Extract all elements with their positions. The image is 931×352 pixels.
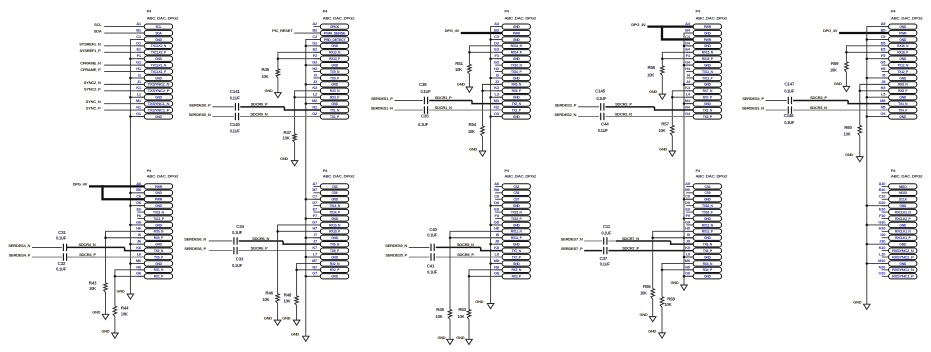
svg-text:0.1UF: 0.1UF — [596, 96, 607, 101]
svg-text:TX6_P: TX6_P — [330, 249, 340, 253]
svg-text:MISO: MISO — [899, 185, 907, 189]
svg-text:10K: 10K — [665, 302, 672, 307]
svg-text:RX11_P: RX11_P — [511, 236, 523, 240]
svg-text:10K: 10K — [640, 291, 647, 296]
svg-text:GND: GND — [280, 156, 288, 161]
svg-text:SDCR6_P: SDCR6_P — [251, 245, 268, 250]
svg-text:RX13_P: RX13_P — [329, 57, 341, 61]
svg-text:SERDES6_N: SERDES6_N — [184, 236, 206, 241]
svg-text:GND: GND — [513, 223, 521, 227]
svg-text:C37: C37 — [600, 256, 608, 261]
svg-text:ABC_DAC_DPG2: ABC_DAC_DPG2 — [891, 17, 923, 21]
svg-text:PWR: PWR — [704, 38, 712, 42]
svg-text:RX7_N: RX7_N — [703, 89, 713, 93]
svg-text:SDCR3_P: SDCR3_P — [810, 95, 827, 100]
svg-text:GND: GND — [704, 63, 712, 67]
svg-text:TX3_P: TX3_P — [703, 115, 713, 119]
svg-text:TX15_N: TX15_N — [511, 210, 523, 214]
svg-text:GND: GND — [469, 146, 477, 151]
svg-text:GND: GND — [513, 262, 521, 266]
svg-text:RX1_N: RX1_N — [154, 268, 164, 272]
svg-text:CFRAME_N: CFRAME_N — [80, 61, 101, 66]
svg-text:GND: GND — [291, 331, 299, 336]
svg-text:RX7_P: RX7_P — [703, 96, 713, 100]
svg-text:TX13_N: TX13_N — [153, 210, 165, 214]
svg-text:RX6_P: RX6_P — [512, 89, 522, 93]
svg-text:RXSYNC1_N: RXSYNC1_N — [892, 268, 914, 272]
svg-text:R54: R54 — [468, 122, 476, 127]
svg-text:GND: GND — [331, 102, 339, 106]
svg-text:TX10_P: TX10_P — [511, 70, 523, 74]
svg-text:GND: GND — [649, 89, 657, 94]
svg-text:10K: 10K — [468, 129, 475, 134]
svg-text:SDCR2_N: SDCR2_N — [615, 111, 632, 116]
svg-text:GND: GND — [640, 312, 648, 317]
svg-text:GND: GND — [704, 83, 712, 87]
svg-text:GND: GND — [331, 83, 339, 87]
svg-text:CS6: CS6 — [332, 191, 338, 195]
svg-text:RXSYNC1_P: RXSYNC1_P — [892, 275, 915, 279]
svg-text:GND: GND — [155, 96, 163, 100]
svg-text:SERDES6_P: SERDES6_P — [184, 246, 206, 251]
svg-text:C35: C35 — [421, 114, 429, 119]
svg-text:SCL: SCL — [94, 22, 102, 27]
svg-text:TX9_P: TX9_P — [154, 255, 164, 259]
svg-text:TX9_N: TX9_N — [154, 249, 164, 253]
svg-text:10K: 10K — [261, 74, 268, 79]
svg-text:GND: GND — [648, 328, 656, 333]
svg-text:G10: G10 — [878, 219, 886, 224]
svg-text:SYNC2_N: SYNC2_N — [84, 80, 101, 85]
svg-text:CS9: CS9 — [704, 191, 710, 195]
svg-text:RX8_P: RX8_P — [898, 89, 908, 93]
svg-text:RX12_P: RX12_P — [702, 230, 714, 234]
svg-text:C147: C147 — [784, 82, 795, 87]
svg-text:C140: C140 — [230, 122, 241, 127]
svg-text:A10: A10 — [879, 181, 887, 186]
svg-text:0.1UF: 0.1UF — [600, 262, 611, 267]
svg-text:RX3_N: RX3_N — [511, 268, 521, 272]
svg-text:GND: GND — [899, 25, 907, 29]
svg-text:RXCLK2_P: RXCLK2_P — [895, 217, 911, 221]
svg-text:10K: 10K — [436, 314, 443, 319]
svg-text:CS2: CS2 — [513, 185, 519, 189]
svg-text:RXCLK2_N: RXCLK2_N — [895, 210, 911, 214]
svg-text:SYSREF1_N: SYSREF1_N — [79, 41, 101, 46]
svg-text:F10: F10 — [879, 213, 886, 218]
svg-text:ABC_DAC_DPG2: ABC_DAC_DPG2 — [147, 17, 179, 21]
svg-text:SYNC2_P: SYNC2_P — [84, 86, 101, 91]
svg-text:RXSYNC2_P: RXSYNC2_P — [892, 255, 915, 259]
svg-text:RX12_N: RX12_N — [702, 223, 714, 227]
svg-text:SYSREF1_P: SYSREF1_P — [79, 48, 101, 53]
svg-text:GND: GND — [704, 255, 712, 259]
svg-text:GND: GND — [155, 191, 163, 195]
svg-text:RX16_N: RX16_N — [897, 44, 909, 48]
svg-text:RX15_N: RX15_N — [702, 51, 714, 55]
svg-text:0.1UF: 0.1UF — [232, 263, 243, 268]
svg-text:PRD_DETECT: PRD_DETECT — [324, 38, 346, 42]
svg-text:SERDES4_P: SERDES4_P — [9, 252, 31, 257]
svg-text:GND: GND — [331, 255, 339, 259]
svg-text:SERDES4_N: SERDES4_N — [8, 243, 30, 248]
svg-text:GND: GND — [899, 262, 907, 266]
svg-text:DPG_4V: DPG_4V — [823, 28, 838, 33]
svg-text:TX13_P: TX13_P — [153, 217, 165, 221]
svg-text:GND: GND — [155, 115, 163, 119]
svg-text:ABC_DAC_DPG2: ABC_DAC_DPG2 — [504, 17, 536, 21]
svg-text:SERDES0_P: SERDES0_P — [189, 102, 211, 107]
svg-text:GND: GND — [456, 335, 464, 340]
svg-text:PWR: PWR — [513, 31, 521, 35]
svg-text:GND: GND — [331, 198, 339, 202]
svg-text:TX16_P: TX16_P — [702, 210, 714, 214]
svg-text:GND: GND — [155, 204, 163, 208]
svg-text:0.1UF: 0.1UF — [784, 120, 795, 125]
svg-text:RX4_N: RX4_N — [703, 262, 713, 266]
svg-text:GND: GND — [155, 76, 163, 80]
svg-text:RX4_P: RX4_P — [703, 268, 713, 272]
svg-text:R60: R60 — [844, 125, 852, 130]
svg-text:GND: GND — [513, 243, 521, 247]
svg-text:R47: R47 — [283, 130, 291, 135]
svg-text:GND: GND — [671, 280, 679, 285]
svg-text:GND: GND — [457, 82, 465, 87]
svg-text:10K: 10K — [830, 67, 837, 72]
svg-text:10K: 10K — [283, 136, 290, 141]
svg-text:GND: GND — [101, 328, 109, 333]
svg-text:0.1UF: 0.1UF — [601, 231, 612, 236]
svg-text:D10: D10 — [879, 200, 887, 205]
svg-text:GND: GND — [845, 152, 853, 157]
svg-text:GND: GND — [155, 243, 163, 247]
svg-text:SERDES7_N: SERDES7_N — [561, 236, 583, 241]
svg-text:TX14_N: TX14_N — [329, 204, 341, 208]
svg-text:GND: GND — [853, 300, 861, 305]
svg-text:GND: GND — [899, 76, 907, 80]
svg-text:DPG_4V: DPG_4V — [73, 182, 88, 187]
svg-text:SDCR0_N: SDCR0_N — [250, 111, 267, 116]
svg-text:SCLK: SCLK — [899, 198, 908, 202]
svg-text:C11: C11 — [603, 224, 611, 229]
svg-text:ABC_DAC_DPG2: ABC_DAC_DPG2 — [323, 174, 355, 178]
svg-text:CS4: CS4 — [704, 185, 710, 189]
svg-text:RX3_P: RX3_P — [330, 96, 340, 100]
svg-text:C34: C34 — [236, 224, 244, 229]
svg-text:TX6_N: TX6_N — [330, 243, 340, 247]
svg-text:GND: GND — [513, 96, 521, 100]
svg-text:RX3_P: RX3_P — [512, 275, 522, 279]
svg-text:TXCLK1_N: TXCLK1_N — [151, 63, 167, 67]
svg-text:RX8_N: RX8_N — [898, 83, 908, 87]
svg-text:TX14_P: TX14_P — [329, 210, 341, 214]
svg-text:SDCR0_P: SDCR0_P — [251, 102, 268, 107]
svg-text:GND: GND — [155, 38, 163, 42]
svg-text:GND: GND — [899, 223, 907, 227]
svg-text:GND: GND — [282, 315, 290, 320]
svg-text:RX11_N: RX11_N — [511, 230, 523, 234]
svg-text:SDCR4_P: SDCR4_P — [79, 252, 96, 257]
svg-text:ABC_DAC_DPG2: ABC_DAC_DPG2 — [147, 174, 179, 178]
svg-text:M10: M10 — [878, 258, 886, 263]
svg-text:CS7: CS7 — [513, 198, 519, 202]
svg-text:CFRAME_P: CFRAME_P — [80, 67, 101, 72]
svg-text:L10: L10 — [879, 251, 886, 256]
svg-text:R58: R58 — [667, 296, 675, 301]
svg-text:R46: R46 — [265, 290, 273, 295]
svg-text:TX12_P: TX12_P — [897, 70, 909, 74]
svg-text:ABC_DAC_DPG2: ABC_DAC_DPG2 — [696, 17, 728, 21]
svg-text:RX0_N: RX0_N — [154, 230, 164, 234]
svg-text:0.1UF: 0.1UF — [230, 128, 241, 133]
svg-text:RX1_P: RX1_P — [154, 275, 164, 279]
svg-text:GND: GND — [704, 217, 712, 221]
svg-text:GND: GND — [92, 310, 100, 315]
svg-text:RX0_P: RX0_P — [154, 236, 164, 240]
svg-text:10K: 10K — [647, 72, 654, 77]
svg-text:GND: GND — [704, 275, 712, 279]
svg-text:DPG_4V: DPG_4V — [631, 22, 646, 27]
svg-text:R45: R45 — [261, 67, 269, 72]
svg-text:TXCLK1_P: TXCLK1_P — [151, 70, 167, 74]
svg-text:C146: C146 — [784, 113, 795, 118]
svg-text:RXCLK1_N: RXCLK1_N — [895, 230, 911, 234]
svg-text:SDCR6_N: SDCR6_N — [252, 236, 269, 241]
svg-text:SDCR3_N: SDCR3_N — [810, 105, 827, 110]
svg-text:TX8_P: TX8_P — [703, 249, 713, 253]
svg-text:C31: C31 — [58, 230, 66, 235]
svg-text:RXCLK1_P: RXCLK1_P — [895, 236, 911, 240]
svg-text:GND: GND — [704, 102, 712, 106]
svg-text:SDCR5_N: SDCR5_N — [457, 242, 474, 247]
svg-text:GND: GND — [155, 57, 163, 61]
svg-text:GND: GND — [513, 38, 521, 42]
svg-text:TX2_P: TX2_P — [512, 108, 522, 112]
svg-text:0.1UF: 0.1UF — [418, 122, 429, 127]
svg-text:RX16_P: RX16_P — [897, 51, 909, 55]
svg-text:SERDES1_P: SERDES1_P — [371, 96, 393, 101]
svg-text:C32: C32 — [58, 261, 66, 266]
svg-text:SDCR7_P: SDCR7_P — [622, 245, 639, 250]
svg-text:GND: GND — [265, 88, 273, 93]
svg-text:R49: R49 — [436, 307, 444, 312]
svg-text:GND: GND — [438, 335, 446, 340]
svg-text:C33: C33 — [236, 257, 244, 262]
svg-text:10K: 10K — [844, 131, 851, 136]
svg-text:PWR: PWR — [899, 31, 907, 35]
svg-text:ABC_DAC_DPG2: ABC_DAC_DPG2 — [891, 174, 923, 178]
svg-text:PWR: PWR — [155, 185, 163, 189]
svg-text:GND: GND — [899, 57, 907, 61]
svg-text:H10: H10 — [879, 226, 887, 231]
svg-text:TX4_P: TX4_P — [898, 108, 908, 112]
svg-text:0.1UF: 0.1UF — [56, 236, 67, 241]
svg-text:GND: GND — [331, 63, 339, 67]
svg-text:0.1UF: 0.1UF — [56, 267, 67, 272]
svg-text:CS0: CS0 — [332, 185, 338, 189]
svg-text:GND: GND — [117, 289, 125, 294]
svg-text:TX4_N: TX4_N — [898, 102, 908, 106]
svg-text:10K: 10K — [457, 314, 464, 319]
svg-text:0.1UF: 0.1UF — [427, 269, 438, 274]
svg-text:SYNC_N: SYNC_N — [86, 99, 101, 104]
svg-text:GND: GND — [264, 315, 272, 320]
svg-text:GND: GND — [331, 236, 339, 240]
svg-text:GND: GND — [899, 204, 907, 208]
svg-text:GND: GND — [704, 198, 712, 202]
svg-text:RX6_N: RX6_N — [511, 83, 521, 87]
svg-text:10K: 10K — [658, 128, 665, 133]
svg-text:0.1UF: 0.1UF — [427, 233, 438, 238]
svg-text:10K: 10K — [121, 311, 128, 316]
svg-text:PWR: PWR — [704, 25, 712, 29]
svg-text:GND: GND — [513, 57, 521, 61]
svg-text:GND: GND — [899, 96, 907, 100]
svg-text:10K: 10K — [89, 286, 96, 291]
svg-text:TXSYNC2_P: TXSYNC2_P — [148, 89, 171, 93]
svg-text:SYNC_P: SYNC_P — [86, 106, 101, 111]
svg-text:TX8_N: TX8_N — [703, 243, 713, 247]
svg-text:K10: K10 — [879, 245, 887, 250]
svg-text:C145: C145 — [595, 89, 606, 94]
svg-text:GND: GND — [513, 115, 521, 119]
svg-text:SERDES0_N: SERDES0_N — [189, 112, 211, 117]
svg-text:RX14_N: RX14_N — [511, 44, 523, 48]
svg-text:TX9_P: TX9_P — [330, 76, 340, 80]
svg-text:TXSYNC2_N: TXSYNC2_N — [148, 83, 171, 87]
svg-text:GND: GND — [513, 204, 521, 208]
svg-text:J10: J10 — [879, 239, 886, 244]
svg-text:GND: GND — [155, 223, 163, 227]
svg-text:0.1UF: 0.1UF — [784, 89, 795, 94]
svg-text:R53: R53 — [458, 307, 466, 312]
svg-text:TX12_N: TX12_N — [897, 63, 909, 67]
svg-text:SDCR2_P: SDCR2_P — [615, 102, 632, 107]
svg-text:0.1UF: 0.1UF — [421, 89, 432, 94]
svg-text:GND: GND — [659, 146, 667, 151]
svg-text:C41: C41 — [427, 264, 435, 269]
svg-text:SDCR1_N: SDCR1_N — [435, 105, 452, 110]
svg-text:RX14_P: RX14_P — [511, 51, 523, 55]
svg-text:GND: GND — [475, 299, 483, 304]
svg-text:SERDES2_P: SERDES2_P — [555, 102, 577, 107]
svg-text:SERDES5_N: SERDES5_N — [385, 243, 407, 248]
svg-text:RX3_N: RX3_N — [330, 89, 340, 93]
svg-text:RX2_P: RX2_P — [330, 268, 340, 272]
svg-text:TX11_N: TX11_N — [702, 70, 713, 74]
svg-text:GND: GND — [331, 44, 339, 48]
svg-text:O10: O10 — [878, 271, 886, 276]
svg-text:RX10_P: RX10_P — [329, 230, 341, 234]
svg-text:TX9_N: TX9_N — [330, 70, 340, 74]
svg-text:GND: GND — [899, 115, 907, 119]
svg-text:RX15_P: RX15_P — [702, 57, 714, 61]
svg-text:C38: C38 — [419, 82, 427, 87]
svg-text:RX2_N: RX2_N — [330, 262, 340, 266]
svg-text:RX13_N: RX13_N — [329, 51, 341, 55]
svg-text:PWR: PWR — [155, 198, 163, 202]
svg-text:R57: R57 — [661, 121, 669, 126]
svg-text:SERDES5_P: SERDES5_P — [385, 252, 407, 257]
svg-text:R43: R43 — [89, 281, 97, 286]
svg-text:C10: C10 — [879, 194, 887, 199]
svg-text:GND: GND — [834, 81, 842, 86]
svg-text:R56: R56 — [643, 284, 651, 289]
svg-text:10K: 10K — [455, 67, 462, 72]
svg-text:TX7_N: TX7_N — [512, 249, 522, 253]
svg-text:GPIO0: GPIO0 — [330, 25, 339, 29]
svg-text:SDCR4_N: SDCR4_N — [78, 242, 95, 247]
svg-text:PWR_SENSE: PWR_SENSE — [324, 31, 347, 35]
svg-text:C141: C141 — [230, 89, 241, 94]
svg-text:GND: GND — [331, 275, 339, 279]
svg-text:N10: N10 — [879, 264, 887, 269]
svg-text:GND: GND — [899, 38, 907, 42]
svg-text:SDCR5_P: SDCR5_P — [457, 252, 474, 257]
svg-text:TX1_P: TX1_P — [330, 115, 340, 119]
svg-text:R55: R55 — [647, 65, 655, 70]
svg-text:GND: GND — [704, 31, 712, 35]
svg-text:CS8: CS8 — [513, 191, 519, 195]
svg-text:TX2_N: TX2_N — [512, 102, 522, 106]
svg-text:0.1UF: 0.1UF — [598, 128, 609, 133]
svg-text:R44: R44 — [121, 306, 129, 311]
svg-text:ABC_DAC_DPG2: ABC_DAC_DPG2 — [323, 17, 355, 21]
svg-text:TXSYNC1_P: TXSYNC1_P — [148, 108, 171, 112]
svg-text:SDA: SDA — [155, 31, 162, 35]
svg-text:GND: GND — [513, 25, 521, 29]
svg-text:MOSI: MOSI — [899, 191, 907, 195]
svg-text:SCL: SCL — [155, 25, 161, 29]
svg-text:TX15_P: TX15_P — [511, 217, 523, 221]
svg-text:SERDES3_N: SERDES3_N — [742, 105, 764, 110]
svg-text:R51: R51 — [455, 61, 463, 66]
svg-text:TXCLK2_N: TXCLK2_N — [151, 44, 167, 48]
svg-text:B10: B10 — [879, 187, 887, 192]
svg-text:C44: C44 — [601, 121, 609, 126]
svg-text:TX16_N: TX16_N — [702, 204, 714, 208]
svg-text:SERDES3_P: SERDES3_P — [742, 96, 764, 101]
svg-text:E10: E10 — [879, 206, 886, 211]
svg-text:TX1_N: TX1_N — [330, 108, 340, 112]
svg-text:GND: GND — [704, 44, 712, 48]
svg-text:PIC_RESET: PIC_RESET — [272, 28, 293, 33]
svg-text:ABC_DAC_DPG2: ABC_DAC_DPG2 — [696, 174, 728, 178]
svg-text:TX11_P: TX11_P — [702, 76, 713, 80]
svg-text:C40: C40 — [429, 227, 437, 232]
svg-text:GND: GND — [899, 243, 907, 247]
svg-text:DPG_4V: DPG_4V — [445, 28, 460, 33]
svg-text:R59: R59 — [831, 61, 839, 66]
svg-text:TX10_N: TX10_N — [511, 63, 523, 67]
svg-text:SDCR7_N: SDCR7_N — [622, 236, 639, 241]
svg-text:RX10_N: RX10_N — [329, 223, 341, 227]
svg-text:TX3_N: TX3_N — [703, 108, 713, 112]
svg-text:SDA: SDA — [94, 29, 102, 34]
svg-text:TXSYNC1_N: TXSYNC1_N — [148, 102, 171, 106]
svg-text:GND: GND — [155, 262, 163, 266]
svg-text:SERDES2_N: SERDES2_N — [554, 112, 576, 117]
svg-text:SDCR1_P: SDCR1_P — [435, 95, 452, 100]
svg-text:GND: GND — [704, 236, 712, 240]
svg-text:SERDES7_P: SERDES7_P — [561, 246, 583, 251]
svg-text:ABC_DAC_DPG2: ABC_DAC_DPG2 — [504, 174, 536, 178]
svg-text:GND: GND — [513, 76, 521, 80]
svg-text:10K: 10K — [283, 299, 290, 304]
svg-text:0.1UF: 0.1UF — [232, 230, 243, 235]
svg-text:SERDES1_N: SERDES1_N — [371, 105, 393, 110]
svg-text:TX7_P: TX7_P — [512, 255, 522, 259]
